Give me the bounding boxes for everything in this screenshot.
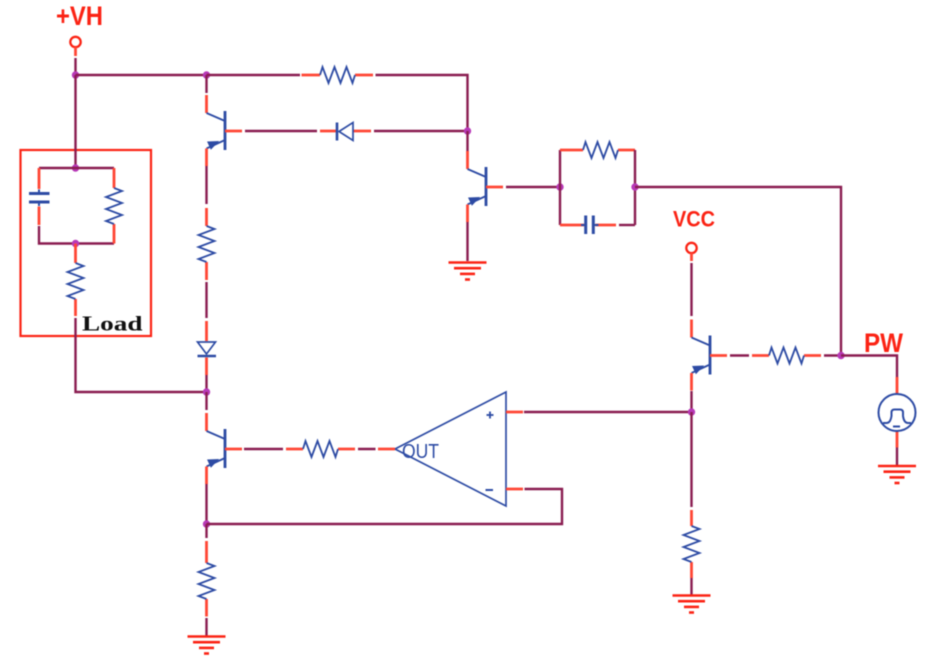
wire Q2 emitter down [466, 222, 468, 261]
capacitor C1 leads [38, 168, 41, 225]
wire D2 to node [374, 130, 468, 132]
svg-text:VCC: VCC [673, 206, 715, 231]
node junction feedback [203, 520, 210, 527]
wire VCC to Q3 collector [690, 263, 692, 316]
resistor R3 leads [205, 208, 208, 280]
wire top rail to R1 [207, 74, 301, 76]
wire R3 to D1 [205, 282, 207, 318]
node junction load bottom [72, 240, 79, 247]
transistor Q4 [207, 413, 243, 484]
resistor R4 leads [286, 448, 355, 451]
wire junction to Q1 collector [205, 75, 207, 93]
resistor R3 [199, 226, 215, 262]
wire +VH terminal to rail junction [74, 58, 76, 75]
ground Q3 [673, 596, 711, 613]
node junction RC left [556, 183, 563, 190]
node junction load top [72, 164, 79, 171]
transistor Q3 [692, 320, 728, 391]
load box outline [21, 150, 152, 336]
node junction D2 Q2 [464, 127, 471, 134]
wire load parallel top [39, 167, 114, 169]
capacitor C2 [581, 216, 599, 235]
svg-text:Load: Load [82, 312, 143, 336]
wire junction to Q4 collector [205, 392, 207, 410]
resistor R-load [68, 263, 84, 299]
wire pulse source to ground [896, 448, 898, 466]
transistor Q2 [468, 151, 504, 222]
pulse source V1 leads [896, 377, 899, 448]
wire load bottom to Q4 junction [76, 318, 207, 392]
svg-text:PW: PW [864, 328, 903, 358]
resistor R2 leads [113, 168, 116, 244]
wire Q3 emitter to junction [690, 391, 692, 412]
diode D1 [198, 342, 217, 356]
svg-text:OUT: OUT [402, 441, 439, 463]
wire R8 to ground [690, 578, 692, 595]
node junction at VH rail left [72, 71, 79, 78]
resistor R5 [199, 563, 215, 599]
resistor R1 [320, 67, 355, 83]
resistor R7 [769, 348, 804, 364]
resistor R1 leads [302, 74, 374, 77]
diode D1 leads [205, 321, 208, 375]
wire Q1 base to D2 [245, 130, 317, 132]
resistor R4 [303, 441, 338, 457]
pulse source V1 [879, 394, 916, 431]
resistor R6 [583, 142, 618, 158]
op-amp U1 [378, 392, 523, 506]
resistor R6 leads [560, 149, 635, 152]
resistor R7 leads [752, 354, 821, 357]
wire VH rail down into load [74, 75, 76, 168]
resistor R5 leads [205, 541, 208, 617]
resistor R-load leads [74, 244, 77, 317]
resistor R8 leads [690, 510, 693, 578]
wire op-amp minus feedback loop [207, 489, 563, 524]
wire junction down to R8 [690, 412, 692, 507]
node junction load return [203, 388, 210, 395]
wire top rail left segment [76, 74, 207, 76]
wire junction down to R5 [205, 524, 207, 538]
wire Q3 base to R7 [730, 354, 749, 356]
diode D2 leads [320, 130, 371, 133]
wire Q2 base to RC block [506, 186, 560, 188]
node junction at Q1 collector column [203, 71, 210, 78]
wire R5 to ground [205, 618, 207, 636]
transistor Q1 [207, 95, 243, 166]
ground Q2 [449, 263, 487, 280]
wire Q4 base to R4 [244, 448, 283, 450]
terminal VCC [686, 243, 696, 261]
wire Q1 emitter to R3 [205, 166, 207, 204]
ground left [188, 637, 226, 654]
resistor R8 [684, 526, 700, 562]
wire RC right verticals [619, 150, 635, 225]
wire D1 to junction [205, 375, 207, 392]
wire PW junction to pulse source [841, 356, 897, 378]
capacitor C2 leads [560, 224, 616, 227]
wire top rail right segment and corner down [376, 75, 468, 131]
capacitor C1 [29, 190, 50, 207]
svg-text:+VH: +VH [56, 1, 103, 31]
wire node to Q2 collector [466, 131, 468, 151]
diode D2 [337, 123, 353, 141]
node junction RC right [631, 183, 638, 190]
node junction PW [837, 352, 844, 359]
node junction plus input [688, 408, 695, 415]
wire RC left verticals [559, 150, 561, 225]
wire R7 to PW junction [824, 354, 841, 356]
wire RC to PW column [635, 187, 841, 356]
wire R4 to op-amp output [358, 448, 376, 450]
wire load bottom left corner [39, 226, 114, 244]
ground PW [878, 466, 916, 483]
wire Q4 emitter down [205, 484, 207, 524]
resistor R2 [106, 188, 122, 224]
terminal +VH [70, 37, 80, 56]
wire op-amp plus input to Q3 emitter junction [524, 411, 692, 413]
